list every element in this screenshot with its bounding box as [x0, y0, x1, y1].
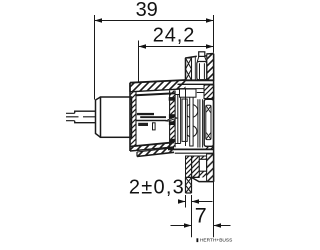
svg-text:7: 7	[195, 203, 207, 227]
pocket hatch above	[199, 156, 206, 160]
dimension 39 extension left	[94, 15, 96, 100]
dimension 39 line	[95, 18, 214, 23]
cup bottom wall strip 1	[130, 142, 174, 151]
plate hole edges	[185, 89, 187, 146]
housing top rim lines	[185, 79, 214, 81]
cup right wall ring (hatched)	[170, 91, 176, 148]
wire	[66, 113, 96, 120]
dimension 2±0,3 line and arrows	[178, 199, 213, 204]
cup top wall (hatched band)	[130, 80, 186, 92]
cup inner top line	[136, 93, 175, 95]
hatch patch right of shoulder	[204, 85, 214, 99]
contact lower blade	[136, 120, 166, 122]
ear gap line	[194, 57, 196, 80]
housing bottom right column (hatched)	[207, 154, 214, 182]
spring contact upper (dark)	[169, 114, 175, 118]
dimension 7 line and arrows	[171, 223, 231, 228]
contact tip through wall	[166, 117, 177, 121]
housing bottom left block (hatched)	[192, 156, 200, 177]
bayonet right walls	[198, 99, 203, 147]
lens inner	[206, 105, 211, 139]
svg-text:▮ HERTH+BUSS: ▮ HERTH+BUSS	[196, 237, 232, 243]
spring contact lower (dark)	[169, 121, 175, 125]
lens ribs	[206, 106, 211, 139]
retaining lug upper (dark)	[169, 97, 175, 101]
pin	[153, 123, 156, 130]
housing bottom rim lines	[168, 148, 214, 150]
bulb end cap upper	[185, 104, 198, 117]
pocket hatch below	[199, 171, 206, 177]
contact strip upper	[137, 113, 154, 115]
contact strip middle	[140, 116, 166, 118]
retaining lug lower (dark)	[170, 139, 176, 142]
dimension right extension	[213, 15, 215, 237]
cup bottom wall strip 2 (outer lip)	[137, 148, 174, 157]
dimension 2±0,3 extension lines	[186, 195, 192, 237]
wire sleeve	[75, 111, 96, 123]
hatch patch below lens	[205, 146, 214, 149]
dimension 24,2 line	[139, 44, 214, 49]
cup left wall (hatched band)	[130, 83, 136, 151]
svg-text:24,2: 24,2	[153, 24, 196, 46]
plate bottom tip (hatched)	[185, 177, 199, 193]
bulb end cap lower	[186, 126, 197, 137]
lens outer	[204, 99, 213, 146]
housing shoulder box	[180, 89, 197, 97]
terminal block (dark)	[138, 123, 148, 126]
rivet tab	[197, 52, 206, 62]
strain-relief cone	[96, 97, 101, 137]
dimension 24,2 extension	[138, 41, 140, 82]
latch pocket	[199, 159, 206, 171]
plate lower section (hatched)	[186, 156, 192, 177]
flange ear plate section (cross-hatched)	[186, 56, 197, 80]
bayonet neck lines	[175, 95, 181, 144]
bayonet channels	[182, 96, 193, 147]
svg-text:39: 39	[136, 0, 158, 21]
plate right edge	[213, 54, 215, 182]
rivet dome	[197, 62, 207, 80]
svg-text:2±0,3: 2±0,3	[129, 177, 185, 199]
ear right hatch strip	[205, 54, 214, 81]
housing bottom chamfer	[192, 177, 214, 181]
socket body	[101, 97, 132, 137]
